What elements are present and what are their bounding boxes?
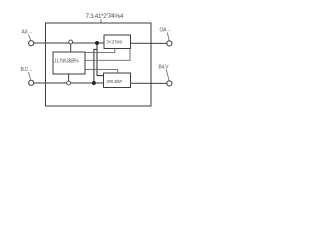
svg-text:3#0.3/6#: 3#0.3/6# <box>106 79 122 84</box>
pin OUT1 terminal circle <box>167 41 172 46</box>
driver block U3 (bottom) <box>104 73 131 88</box>
pin OUT2 (bottom-right) label <box>159 65 170 81</box>
svg-text:B.C→: B.C→ <box>21 67 33 73</box>
svg-text:J.L'N#J&B%: J.L'N#J&B% <box>54 59 79 65</box>
wire: vertical bus x=97 from top rail to U3 left <box>97 43 104 76</box>
tap circle on top rail <box>69 40 73 44</box>
control circuit block U1 <box>53 52 85 74</box>
IC outer boundary box <box>46 23 152 106</box>
pin OUT1 (top-right) label <box>160 28 171 41</box>
svg-text:B4.V: B4.V <box>159 65 170 71</box>
junction dot on bottom rail at x=94 <box>92 81 96 85</box>
wire: top rail from pin A to U2 <box>34 42 104 44</box>
wire: tap from U1 bottom down to bottom rail <box>68 74 70 81</box>
svg-text:3Y.37/#8: 3Y.37/#8 <box>106 39 122 44</box>
svg-text:OA→: OA→ <box>160 28 171 34</box>
wire Q: control U1 to U3 top <box>85 69 118 73</box>
pin A terminal circle <box>29 41 34 46</box>
wire: vertical bus x=94 from jog stub down to bottom rail <box>94 49 97 83</box>
pin B (bottom-left) label <box>21 67 33 80</box>
pin OUT2 terminal circle <box>167 81 172 86</box>
wire: top output from U2 to pin OUT1 <box>131 42 168 44</box>
svg-text:7.3.41*2'7⁄4%4: 7.3.41*2'7⁄4%4 <box>86 13 124 20</box>
pin A (top-left) label <box>22 30 33 41</box>
title pointer tick <box>100 19 102 23</box>
wire P: control U1 to output node feedback <box>85 49 130 61</box>
wire R: control U1 to U2 bottom <box>85 49 115 53</box>
wire: bottom rail from pin B to U3 <box>34 82 104 84</box>
wire: tap from top rail down to U1 top <box>70 44 72 52</box>
junction dot on top rail at x=97 <box>95 41 99 45</box>
driver block U2 (top) <box>104 35 131 49</box>
wire: bottom output from U3 to pin OUT2 <box>131 82 168 84</box>
tap circle on bottom rail <box>67 81 71 85</box>
title text <box>86 13 124 23</box>
svg-text:AX→: AX→ <box>22 30 33 36</box>
pin B terminal circle <box>29 80 34 85</box>
